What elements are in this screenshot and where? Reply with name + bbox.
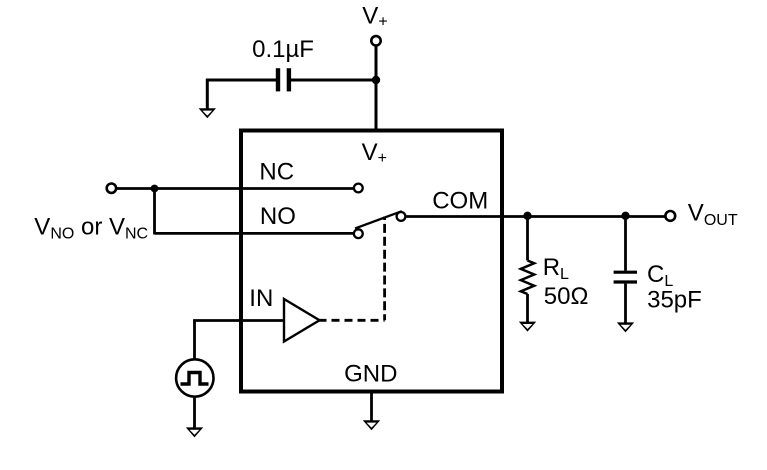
wire RL to ground (526, 294, 529, 324)
resistor RL 50ohm (521, 261, 534, 295)
wire to NO pin (155, 232, 355, 235)
wire down to RL (526, 217, 529, 261)
wire input to NC pin (116, 187, 354, 190)
svg-text:VOUT: VOUT (688, 199, 738, 229)
capacitor C bypass 0.1uF (278, 68, 289, 91)
capacitor CL 35pF (614, 272, 637, 282)
ground RL (519, 322, 536, 332)
terminal input source (107, 184, 116, 193)
svg-text:0.1µF: 0.1µF (252, 36, 314, 63)
wire pulse source to ground (193, 397, 196, 429)
dashed control line vertical (383, 217, 386, 321)
svg-text:V+: V+ (362, 139, 387, 167)
wire CL to ground (624, 284, 627, 325)
ground top-left (199, 108, 216, 118)
junction top rail (372, 76, 380, 84)
wire GND pin down (370, 391, 373, 422)
pin circle NC (354, 184, 363, 193)
pulse source V1 (176, 359, 213, 396)
wire capacitor to ground corner (206, 79, 209, 111)
wire V+ terminal to box top (375, 46, 378, 131)
wire COM to output terminal (407, 215, 666, 218)
ground GND pin (363, 420, 380, 430)
junction input split (151, 185, 159, 193)
svg-text:GND: GND (344, 360, 397, 387)
svg-text:COM: COM (432, 188, 488, 215)
wire top rail right of capacitor (291, 79, 376, 82)
svg-text:VNO or VNC: VNO or VNC (34, 214, 148, 243)
svg-text:35pF: 35pF (647, 286, 702, 313)
svg-text:V+: V+ (362, 3, 387, 31)
wire IN to buffer (193, 319, 284, 322)
junction COM to RL (523, 212, 531, 220)
ground pulse source (186, 427, 203, 437)
switch arm NO to COM (355, 211, 402, 228)
junction COM to CL (621, 212, 629, 220)
dashed control line horizontal (319, 319, 385, 322)
svg-text:50Ω: 50Ω (544, 283, 589, 310)
ground CL (617, 322, 634, 332)
terminal V+ supply (371, 36, 380, 45)
wire junction down (153, 189, 156, 235)
switch box U1 (241, 131, 502, 392)
wire down to CL (624, 217, 627, 271)
svg-text:RL: RL (543, 254, 569, 283)
svg-text:IN: IN (249, 285, 273, 312)
pin circle COM (397, 212, 406, 221)
terminal VOUT (665, 211, 675, 221)
svg-text:NC: NC (259, 158, 294, 185)
wire down to pulse source (193, 321, 196, 360)
pin circle NO (354, 229, 363, 238)
wire top rail left of capacitor (207, 79, 276, 82)
svg-text:NO: NO (260, 203, 296, 230)
buffer driver triangle (284, 299, 320, 342)
